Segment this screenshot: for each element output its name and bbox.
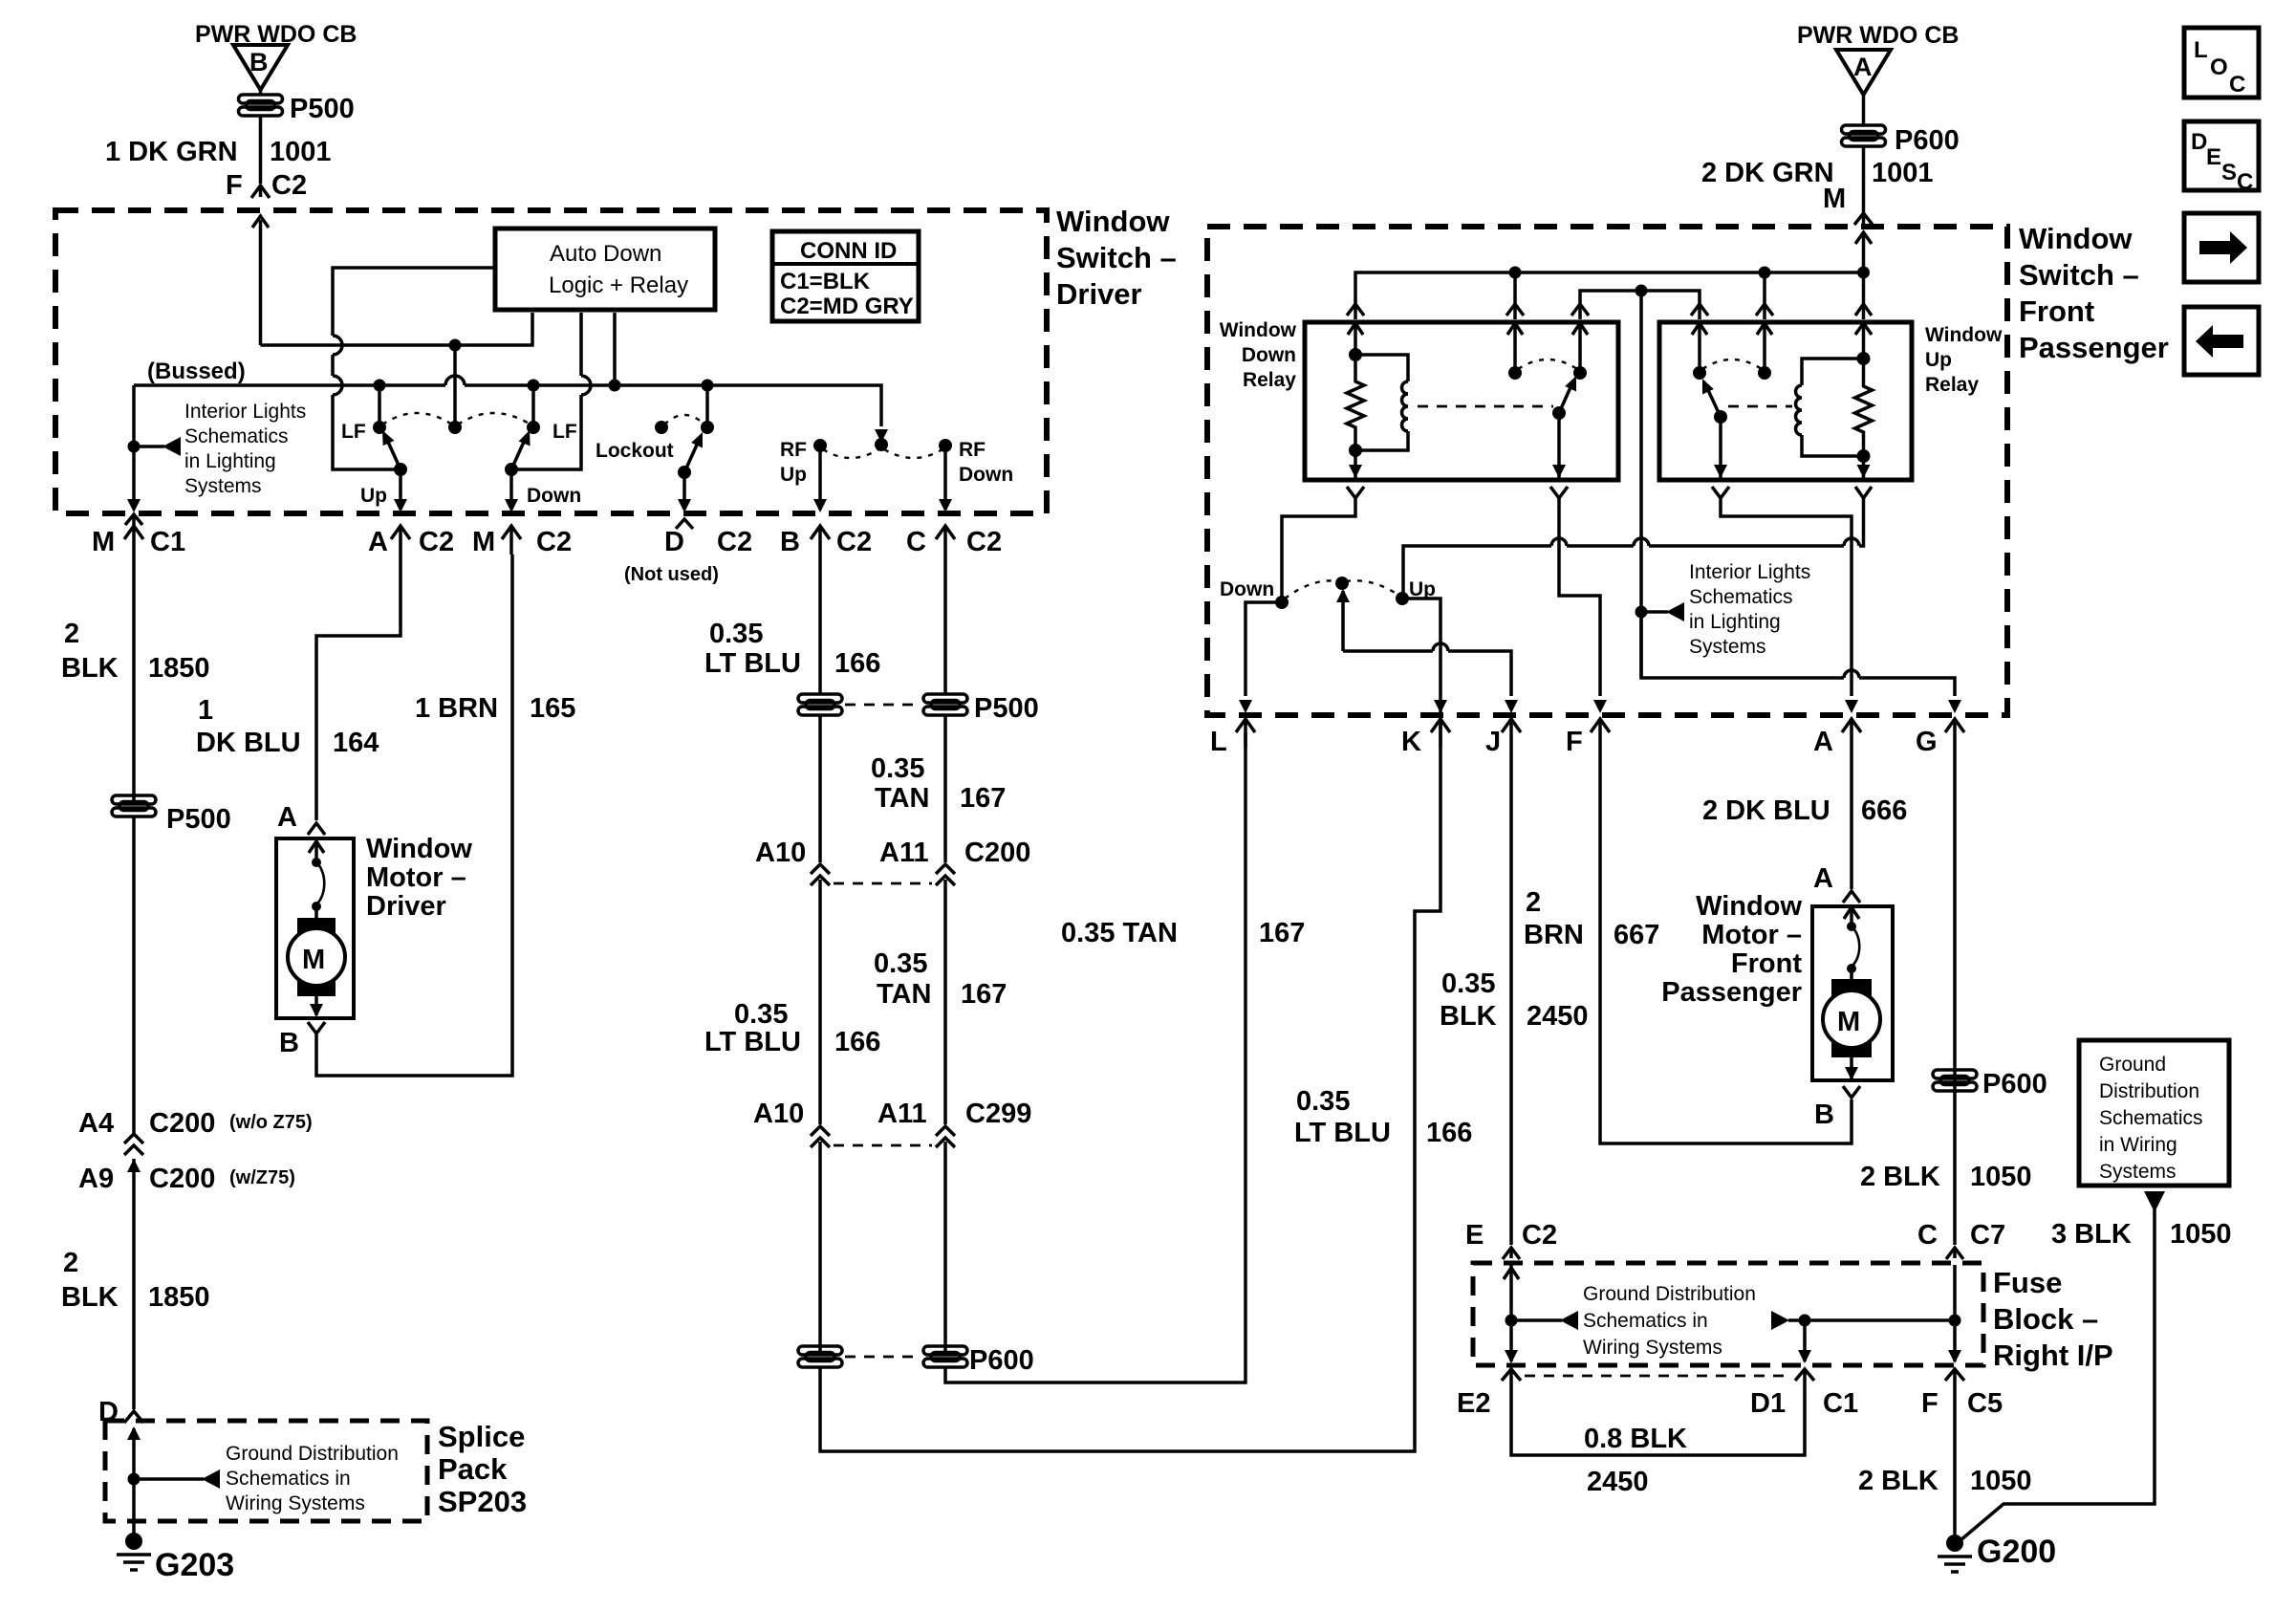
interior lights callout node (driver) bbox=[128, 441, 141, 453]
svg-text:BLK: BLK bbox=[61, 1282, 119, 1313]
DESC reference box bbox=[2184, 121, 2259, 195]
svg-text:G200: G200 bbox=[1977, 1534, 2056, 1570]
RF Up contact node bbox=[813, 439, 827, 452]
svg-text:Pack: Pack bbox=[438, 1452, 508, 1486]
Lockout right contact node bbox=[701, 421, 714, 434]
wire C to C200 bbox=[943, 715, 947, 862]
dashed tie between P500 grommets bbox=[845, 704, 921, 707]
svg-text:Systems: Systems bbox=[1689, 636, 1766, 658]
up relay contact node bbox=[1693, 366, 1706, 380]
wire continues to C200 connector bbox=[132, 816, 136, 1133]
svg-text:C: C bbox=[1917, 1220, 1938, 1251]
svg-text:RF: RF bbox=[780, 439, 807, 461]
svg-text:B: B bbox=[279, 1028, 299, 1058]
CONN ID table box bbox=[772, 231, 919, 321]
motor brush nodes and flex curve bbox=[312, 858, 324, 920]
svg-text:1850: 1850 bbox=[148, 1282, 210, 1313]
wire C route to passenger pin L bbox=[945, 732, 1245, 1382]
connector chevron at motor B bbox=[308, 1022, 325, 1034]
wire bus left end down to interior lights node and pin M bbox=[132, 385, 136, 505]
svg-text:0.35 TAN: 0.35 TAN bbox=[1061, 918, 1178, 948]
dashed link RF Up to common bbox=[823, 449, 878, 458]
wire supply tap to Up relay mid pin bbox=[1763, 272, 1766, 319]
Up contact node bbox=[1396, 592, 1409, 605]
down relay contact node bbox=[1573, 366, 1587, 380]
motor FP brush nodes and flex curve bbox=[1847, 922, 1859, 981]
LF Up output wire with arrow bbox=[394, 469, 407, 512]
svg-text:C2: C2 bbox=[836, 527, 872, 557]
interior lights callout arrow (passenger) bbox=[1641, 610, 1668, 614]
svg-text:1050: 1050 bbox=[1970, 1466, 2032, 1496]
wire pin F to passenger motor B (2 BRN 667) bbox=[1600, 748, 1852, 1143]
Window Up Relay box bbox=[1659, 322, 1912, 480]
svg-text:S: S bbox=[2221, 160, 2237, 185]
svg-text:Interior Lights: Interior Lights bbox=[184, 401, 306, 423]
svg-text:Relay: Relay bbox=[1925, 374, 1979, 396]
motor FP commutator blocks and M rotor bbox=[1823, 979, 1880, 1057]
fuse block C wire through to F pin bbox=[1948, 1265, 1961, 1363]
svg-text:Right I/P: Right I/P bbox=[1993, 1339, 2113, 1372]
ground distribution callout arrow (fuse block right) bbox=[1771, 1311, 1789, 1330]
svg-text:Motor –: Motor – bbox=[1701, 920, 1802, 950]
svg-text:C2: C2 bbox=[536, 527, 572, 557]
svg-text:BRN: BRN bbox=[1524, 920, 1584, 950]
fuse block E node bbox=[1505, 1315, 1518, 1327]
svg-text:PWR WDO CB: PWR WDO CB bbox=[1797, 22, 1959, 49]
svg-text:A: A bbox=[277, 802, 297, 833]
svg-text:Ground Distribution: Ground Distribution bbox=[1583, 1283, 1756, 1305]
svg-text:2 BLK: 2 BLK bbox=[1858, 1466, 1939, 1496]
hop over inter-relay wire bbox=[1634, 538, 1649, 546]
hop over pin A wire bbox=[1844, 538, 1859, 546]
dashed link common to LF Down bbox=[458, 413, 531, 425]
up relay throw node bbox=[1758, 366, 1771, 380]
svg-text:M: M bbox=[92, 527, 115, 557]
bus junction nodes bbox=[374, 380, 386, 392]
svg-text:P500: P500 bbox=[290, 94, 355, 124]
wire Auto Down mid pin to LF Down pivot bbox=[511, 313, 581, 469]
svg-text:2: 2 bbox=[64, 619, 79, 649]
svg-text:B: B bbox=[780, 527, 800, 557]
ground distribution callout arrow (fuse block left) bbox=[1511, 1318, 1562, 1322]
passenger switch dashed arc Down-center bbox=[1285, 580, 1338, 599]
svg-text:K: K bbox=[1401, 727, 1421, 757]
left-arrow reference box bbox=[2184, 307, 2259, 375]
svg-text:SP203: SP203 bbox=[438, 1485, 527, 1518]
wire M C1 ground run (2 BLK 1850) bbox=[132, 555, 136, 805]
svg-text:BLK: BLK bbox=[1440, 1001, 1497, 1032]
wire pin A to passenger motor A (2 DK BLU 666) bbox=[1850, 748, 1853, 889]
svg-text:Ground: Ground bbox=[2099, 1054, 2166, 1076]
connector chevron at E C2 bbox=[1503, 1248, 1520, 1259]
svg-text:166: 166 bbox=[1426, 1118, 1472, 1148]
svg-text:M: M bbox=[472, 527, 495, 557]
down relay resistor bbox=[1347, 355, 1364, 450]
svg-text:Schematics: Schematics bbox=[1689, 586, 1793, 608]
up relay switch arm bbox=[1697, 376, 1721, 417]
svg-text:A10: A10 bbox=[755, 838, 806, 868]
svg-text:LT BLU: LT BLU bbox=[704, 648, 801, 679]
svg-text:G: G bbox=[1916, 727, 1938, 757]
svg-text:164: 164 bbox=[333, 728, 379, 758]
down relay coil exit arrow bbox=[1349, 450, 1362, 478]
interior lights callout arrow (driver) bbox=[134, 445, 164, 448]
LF Up pivot node bbox=[394, 463, 407, 476]
wire up relay pivot to pin A bbox=[1721, 498, 1852, 696]
svg-text:Schematics in: Schematics in bbox=[226, 1468, 351, 1490]
svg-text:A4: A4 bbox=[78, 1108, 114, 1139]
svg-text:C200: C200 bbox=[149, 1108, 215, 1139]
driver box bottom pin chevrons bbox=[124, 526, 143, 555]
LF Down contact wire bbox=[531, 385, 535, 427]
svg-text:667: 667 bbox=[1614, 920, 1659, 950]
passenger box bottom pin chevrons bbox=[1236, 719, 1255, 748]
svg-text:C: C bbox=[906, 527, 926, 557]
svg-text:C2=MD GRY: C2=MD GRY bbox=[780, 294, 914, 319]
svg-text:Schematics in: Schematics in bbox=[1583, 1310, 1708, 1332]
down relay bottom node bbox=[1349, 444, 1362, 457]
svg-text:0.35: 0.35 bbox=[734, 999, 788, 1030]
vertical hop over bus bbox=[581, 376, 591, 395]
svg-text:666: 666 bbox=[1861, 795, 1907, 826]
motor exit arrow bbox=[310, 986, 323, 1017]
tie rail between relay switch pins bbox=[1580, 291, 1700, 319]
svg-text:Up: Up bbox=[780, 464, 807, 486]
dashed link LF Up to common bbox=[382, 413, 452, 425]
dashed tie at C299 bbox=[834, 1144, 932, 1147]
junction node on supply run bbox=[449, 339, 462, 352]
svg-text:C299: C299 bbox=[965, 1099, 1031, 1129]
svg-text:C1: C1 bbox=[1823, 1388, 1858, 1419]
fuse block E entry arrow bbox=[1504, 1265, 1519, 1320]
svg-text:2450: 2450 bbox=[1587, 1467, 1649, 1497]
Ground Distribution Schematics in Wiring Systems box (right) bbox=[2079, 1040, 2229, 1186]
svg-text:J: J bbox=[1485, 727, 1501, 757]
wire from breaker B to grommet P500 bbox=[259, 90, 263, 96]
down relay pivot exit arrow bbox=[1552, 413, 1566, 478]
up relay coil pin entry arrow bbox=[1855, 322, 1872, 357]
svg-text:C1: C1 bbox=[150, 527, 185, 557]
supply wire arrow entering driver box bbox=[252, 216, 269, 345]
svg-text:P600: P600 bbox=[1982, 1069, 2047, 1099]
connector chevron at M entry bbox=[1854, 213, 1873, 225]
chevrons below relay boxes bbox=[1347, 487, 1364, 498]
svg-text:2 DK GRN: 2 DK GRN bbox=[1701, 158, 1834, 188]
Lockout pivot node bbox=[678, 466, 691, 479]
wire down relay pivot to pin F bbox=[1559, 498, 1600, 696]
svg-text:167: 167 bbox=[961, 979, 1007, 1010]
wire B to C200 bbox=[818, 715, 822, 862]
inline connector chevrons A4/A9 with arrow bbox=[124, 1134, 143, 1409]
down relay coil bbox=[1355, 355, 1408, 450]
svg-text:M: M bbox=[1823, 184, 1846, 214]
wire B C2 (0.35 LT BLU 166) down to P500 bbox=[818, 555, 822, 695]
svg-text:D: D bbox=[664, 527, 684, 557]
svg-text:Switch –: Switch – bbox=[2019, 258, 2139, 292]
svg-text:2450: 2450 bbox=[1527, 1001, 1589, 1032]
wire P600 down to passenger box bbox=[1862, 146, 1866, 212]
svg-text:165: 165 bbox=[530, 693, 575, 724]
up relay pivot exit arrow bbox=[1714, 417, 1727, 478]
svg-text:(Not used): (Not used) bbox=[624, 564, 719, 585]
up relay actuation dashed link bbox=[1728, 405, 1792, 408]
svg-text:P600: P600 bbox=[969, 1345, 1034, 1376]
svg-text:G203: G203 bbox=[155, 1547, 234, 1583]
wire Auto Down right pin to bus bbox=[613, 313, 617, 385]
LOC reference box bbox=[2184, 28, 2259, 98]
svg-text:A11: A11 bbox=[879, 838, 929, 868]
up relay coil exit arrow bbox=[1857, 456, 1871, 478]
down relay dashed throw arc bbox=[1518, 359, 1577, 369]
wire supply tap down to LF switch common bbox=[453, 345, 457, 427]
svg-text:1050: 1050 bbox=[1970, 1162, 2032, 1192]
ground G203 bbox=[117, 1533, 151, 1570]
svg-text:2: 2 bbox=[63, 1248, 78, 1278]
svg-text:Window: Window bbox=[1925, 324, 2003, 346]
up relay mid pin arrow to throw bbox=[1757, 322, 1772, 371]
grommet P600 (on wire C) bbox=[923, 1346, 967, 1367]
svg-text:Systems: Systems bbox=[184, 475, 262, 497]
LF Down switch arm bbox=[511, 428, 535, 469]
svg-text:C200: C200 bbox=[964, 838, 1030, 868]
wire C C2 (TAN 167) down to P500 bbox=[943, 555, 947, 695]
svg-text:Window: Window bbox=[1696, 891, 1802, 922]
up relay coil bbox=[1796, 359, 1864, 456]
Lockout output wire with arrow bbox=[678, 472, 691, 512]
connector chevron at motor FP B bbox=[1843, 1086, 1860, 1098]
svg-text:E2: E2 bbox=[1457, 1388, 1490, 1419]
LF Up switch arm bbox=[378, 427, 401, 469]
LF Up contact wire bbox=[378, 385, 381, 427]
LF Down pivot node bbox=[505, 463, 518, 476]
svg-text:F: F bbox=[226, 170, 243, 201]
RF Down contact node bbox=[939, 439, 952, 452]
grommet P500 (top left) bbox=[239, 95, 283, 116]
down relay pivot node bbox=[1552, 406, 1566, 420]
svg-text:CONN ID: CONN ID bbox=[800, 238, 897, 264]
passenger box bottom pin exit arrows bbox=[1239, 700, 1961, 713]
svg-text:Passenger: Passenger bbox=[1661, 977, 1802, 1008]
svg-text:1850: 1850 bbox=[148, 653, 210, 684]
LF Up contact node bbox=[373, 421, 386, 434]
LF Down contact node bbox=[527, 421, 540, 434]
Splice Pack SP203 dashed box bbox=[105, 1421, 427, 1521]
down relay top node bbox=[1349, 348, 1362, 361]
svg-text:2 BLK: 2 BLK bbox=[1860, 1162, 1940, 1192]
wire A C2 to window motor driver (1 DK BLU 164) bbox=[316, 555, 401, 820]
chevrons below fuse block bbox=[1502, 1369, 1521, 1388]
svg-text:TAN: TAN bbox=[875, 783, 929, 814]
wire 0.8 BLK 2450 loop E2 to D1 bbox=[1511, 1388, 1805, 1455]
svg-text:Up: Up bbox=[360, 485, 387, 507]
motor FP exit arrow bbox=[1845, 1048, 1858, 1080]
svg-text:Block –: Block – bbox=[1993, 1302, 2098, 1336]
svg-text:A: A bbox=[1813, 727, 1833, 757]
wire 3 BLK 1050 from ground distribution box bbox=[1960, 1191, 2165, 1540]
right-arrow reference box bbox=[2184, 213, 2259, 282]
interior lights node (passenger) bbox=[1635, 606, 1648, 619]
svg-text:C2: C2 bbox=[1522, 1220, 1557, 1251]
connector chevron above splice pack bbox=[124, 1411, 143, 1423]
down relay throw node bbox=[1508, 366, 1522, 380]
svg-text:C2: C2 bbox=[966, 527, 1002, 557]
up relay top node bbox=[1857, 352, 1871, 365]
svg-text:C5: C5 bbox=[1967, 1388, 2003, 1419]
svg-text:P500: P500 bbox=[974, 693, 1039, 724]
supply wire corner to Auto Down box bottom-left pin bbox=[261, 313, 533, 345]
down relay contact pin arrow bbox=[1572, 322, 1588, 371]
connector chevron at motor A bbox=[308, 823, 325, 835]
svg-text:0.35: 0.35 bbox=[874, 948, 927, 979]
svg-text:1050: 1050 bbox=[2170, 1219, 2232, 1250]
wire into splice pack with up arrow bbox=[127, 1426, 141, 1539]
svg-text:RF: RF bbox=[959, 439, 986, 461]
bus hop over vertical 476 bbox=[445, 376, 465, 385]
svg-text:BLK: BLK bbox=[61, 653, 119, 684]
RF feed wire from bus with arrow bbox=[875, 429, 888, 443]
motor internals: entry arrow bbox=[309, 838, 324, 860]
svg-text:in Lighting: in Lighting bbox=[184, 450, 276, 472]
svg-text:0.35: 0.35 bbox=[709, 619, 763, 649]
svg-text:TAN: TAN bbox=[877, 979, 931, 1010]
svg-text:Wiring Systems: Wiring Systems bbox=[1583, 1337, 1722, 1359]
svg-text:DK BLU: DK BLU bbox=[196, 728, 301, 758]
svg-text:P600: P600 bbox=[1895, 125, 1960, 156]
RF Up output wire with arrow bbox=[813, 446, 827, 512]
fuse block D1 node bbox=[1799, 1315, 1811, 1327]
down relay mid pin arrow to contact bbox=[1507, 322, 1523, 371]
Fuse Block - Right I/P dashed box bbox=[1473, 1263, 1983, 1365]
svg-text:F: F bbox=[1921, 1388, 1939, 1419]
svg-text:Driver: Driver bbox=[366, 891, 446, 922]
svg-text:167: 167 bbox=[1259, 918, 1305, 948]
svg-text:M: M bbox=[302, 945, 325, 975]
svg-text:D: D bbox=[2191, 129, 2207, 155]
svg-text:A: A bbox=[1813, 863, 1833, 894]
Lockout right contact wire to bus bbox=[705, 385, 709, 427]
fuse block E exit arrow bbox=[1505, 1320, 1518, 1363]
svg-text:0.35: 0.35 bbox=[1441, 969, 1495, 999]
wire B route to passenger pin K bbox=[820, 732, 1440, 1451]
ground G200 bbox=[1938, 1535, 1972, 1572]
Window Down Relay box bbox=[1305, 322, 1618, 480]
dashed link lockout contacts bbox=[664, 415, 704, 425]
LF Down output wire with arrow bbox=[505, 469, 518, 512]
svg-text:Ground Distribution: Ground Distribution bbox=[226, 1443, 399, 1465]
svg-text:Distribution: Distribution bbox=[2099, 1080, 2199, 1102]
motor FP entry arrow bbox=[1844, 906, 1859, 924]
connector chevron at C C7 bbox=[1946, 1248, 1963, 1259]
svg-text:in Lighting: in Lighting bbox=[1689, 611, 1781, 633]
vertical hop over bus bbox=[333, 376, 342, 395]
wire interior lights frame to pin G bbox=[1641, 612, 1955, 696]
svg-text:Logic + Relay: Logic + Relay bbox=[549, 272, 688, 298]
wire motor B to M C2 (1 BRN 165) bbox=[316, 555, 512, 1076]
svg-text:O: O bbox=[2210, 54, 2228, 80]
grommet P500 (on wire C) bbox=[923, 694, 967, 715]
down relay coil pin entry arrow bbox=[1348, 322, 1363, 353]
svg-text:1: 1 bbox=[198, 695, 213, 726]
tie rail junction node bbox=[1635, 285, 1648, 297]
Auto Down Logic + Relay box bbox=[495, 229, 715, 310]
svg-text:Systems: Systems bbox=[2099, 1161, 2177, 1183]
supply rail junction nodes bbox=[1509, 267, 1522, 279]
svg-text:Driver: Driver bbox=[1056, 277, 1142, 311]
svg-text:1 BRN: 1 BRN bbox=[415, 693, 498, 724]
svg-text:D1: D1 bbox=[1750, 1388, 1786, 1419]
svg-text:C2: C2 bbox=[419, 527, 454, 557]
Window Switch - Driver dashed box bbox=[55, 210, 1047, 513]
svg-text:C200: C200 bbox=[149, 1164, 215, 1194]
up relay bottom node bbox=[1857, 449, 1871, 463]
svg-text:E: E bbox=[1465, 1220, 1484, 1251]
svg-text:Wiring Systems: Wiring Systems bbox=[226, 1492, 365, 1514]
fuse block C-F node bbox=[1949, 1315, 1961, 1327]
svg-text:Interior Lights: Interior Lights bbox=[1689, 561, 1810, 583]
svg-text:A9: A9 bbox=[78, 1164, 114, 1194]
wire pin M exit arrow bbox=[125, 499, 142, 532]
wire pin G down to fuse block C (2 BLK 1050) bbox=[1953, 748, 1957, 1245]
svg-text:Passenger: Passenger bbox=[2019, 331, 2169, 364]
wire up relay coil to Up contact bbox=[1403, 498, 1864, 599]
dashed tie between P600 grommets bbox=[845, 1356, 921, 1359]
grommet P500 (on wire B) bbox=[798, 694, 842, 715]
wire pin J to fuse block E (0.35 BLK 2450) bbox=[1509, 748, 1513, 1245]
svg-text:Front: Front bbox=[1731, 948, 1802, 979]
wire from breaker A to grommet P600 bbox=[1862, 95, 1866, 126]
grommet P500 (left column) bbox=[112, 795, 156, 816]
grommet P600 (on G wire) bbox=[1933, 1070, 1977, 1091]
inline connector chevrons at C299 bbox=[811, 1126, 955, 1352]
svg-text:Schematics: Schematics bbox=[184, 425, 289, 447]
up relay contact pin arrow bbox=[1692, 322, 1707, 371]
svg-text:Relay: Relay bbox=[1243, 369, 1296, 391]
svg-text:LF: LF bbox=[552, 421, 577, 443]
wire Auto Down left-side pin to LF Up pivot bbox=[333, 268, 495, 469]
wire supply tap to Down relay mid pin bbox=[1513, 272, 1517, 319]
wire F C5 to ground G200 (2 BLK 1050) bbox=[1953, 1388, 1957, 1541]
bus wire (Bussed) bbox=[134, 385, 881, 426]
dashed link common to RF Down bbox=[884, 449, 942, 458]
svg-text:0.35: 0.35 bbox=[871, 753, 924, 784]
svg-text:A: A bbox=[368, 527, 388, 557]
svg-text:1001: 1001 bbox=[1872, 158, 1934, 188]
svg-text:Window: Window bbox=[2019, 222, 2133, 255]
svg-text:Down: Down bbox=[527, 485, 581, 507]
svg-text:B: B bbox=[1814, 1099, 1834, 1130]
svg-text:Lockout: Lockout bbox=[596, 440, 674, 462]
grommet P600 (top right) bbox=[1842, 125, 1886, 146]
svg-text:0.8 BLK: 0.8 BLK bbox=[1584, 1424, 1687, 1454]
feed arrow to passenger switch center from pin J bbox=[1336, 589, 1511, 696]
svg-text:A: A bbox=[1853, 53, 1873, 81]
svg-text:Window: Window bbox=[1220, 319, 1297, 341]
svg-text:Down: Down bbox=[1220, 578, 1274, 600]
svg-text:1 DK GRN: 1 DK GRN bbox=[105, 137, 238, 167]
svg-text:2: 2 bbox=[1526, 887, 1541, 918]
hop over pin K wire bbox=[1433, 643, 1448, 651]
motor commutator blocks and M rotor bbox=[288, 918, 345, 996]
svg-text:A11: A11 bbox=[877, 1099, 927, 1129]
hop over down relay pivot wire bbox=[1551, 538, 1567, 546]
hop over pin A wire at frame bottom bbox=[1844, 670, 1859, 678]
supply wire arrow entering passenger box bbox=[1855, 232, 1872, 319]
svg-text:LT BLU: LT BLU bbox=[1294, 1118, 1391, 1148]
svg-text:M: M bbox=[1837, 1007, 1860, 1037]
passenger switch center node bbox=[1335, 577, 1349, 590]
svg-text:166: 166 bbox=[834, 648, 880, 679]
inline connector chevrons at C200 bbox=[811, 864, 955, 1124]
